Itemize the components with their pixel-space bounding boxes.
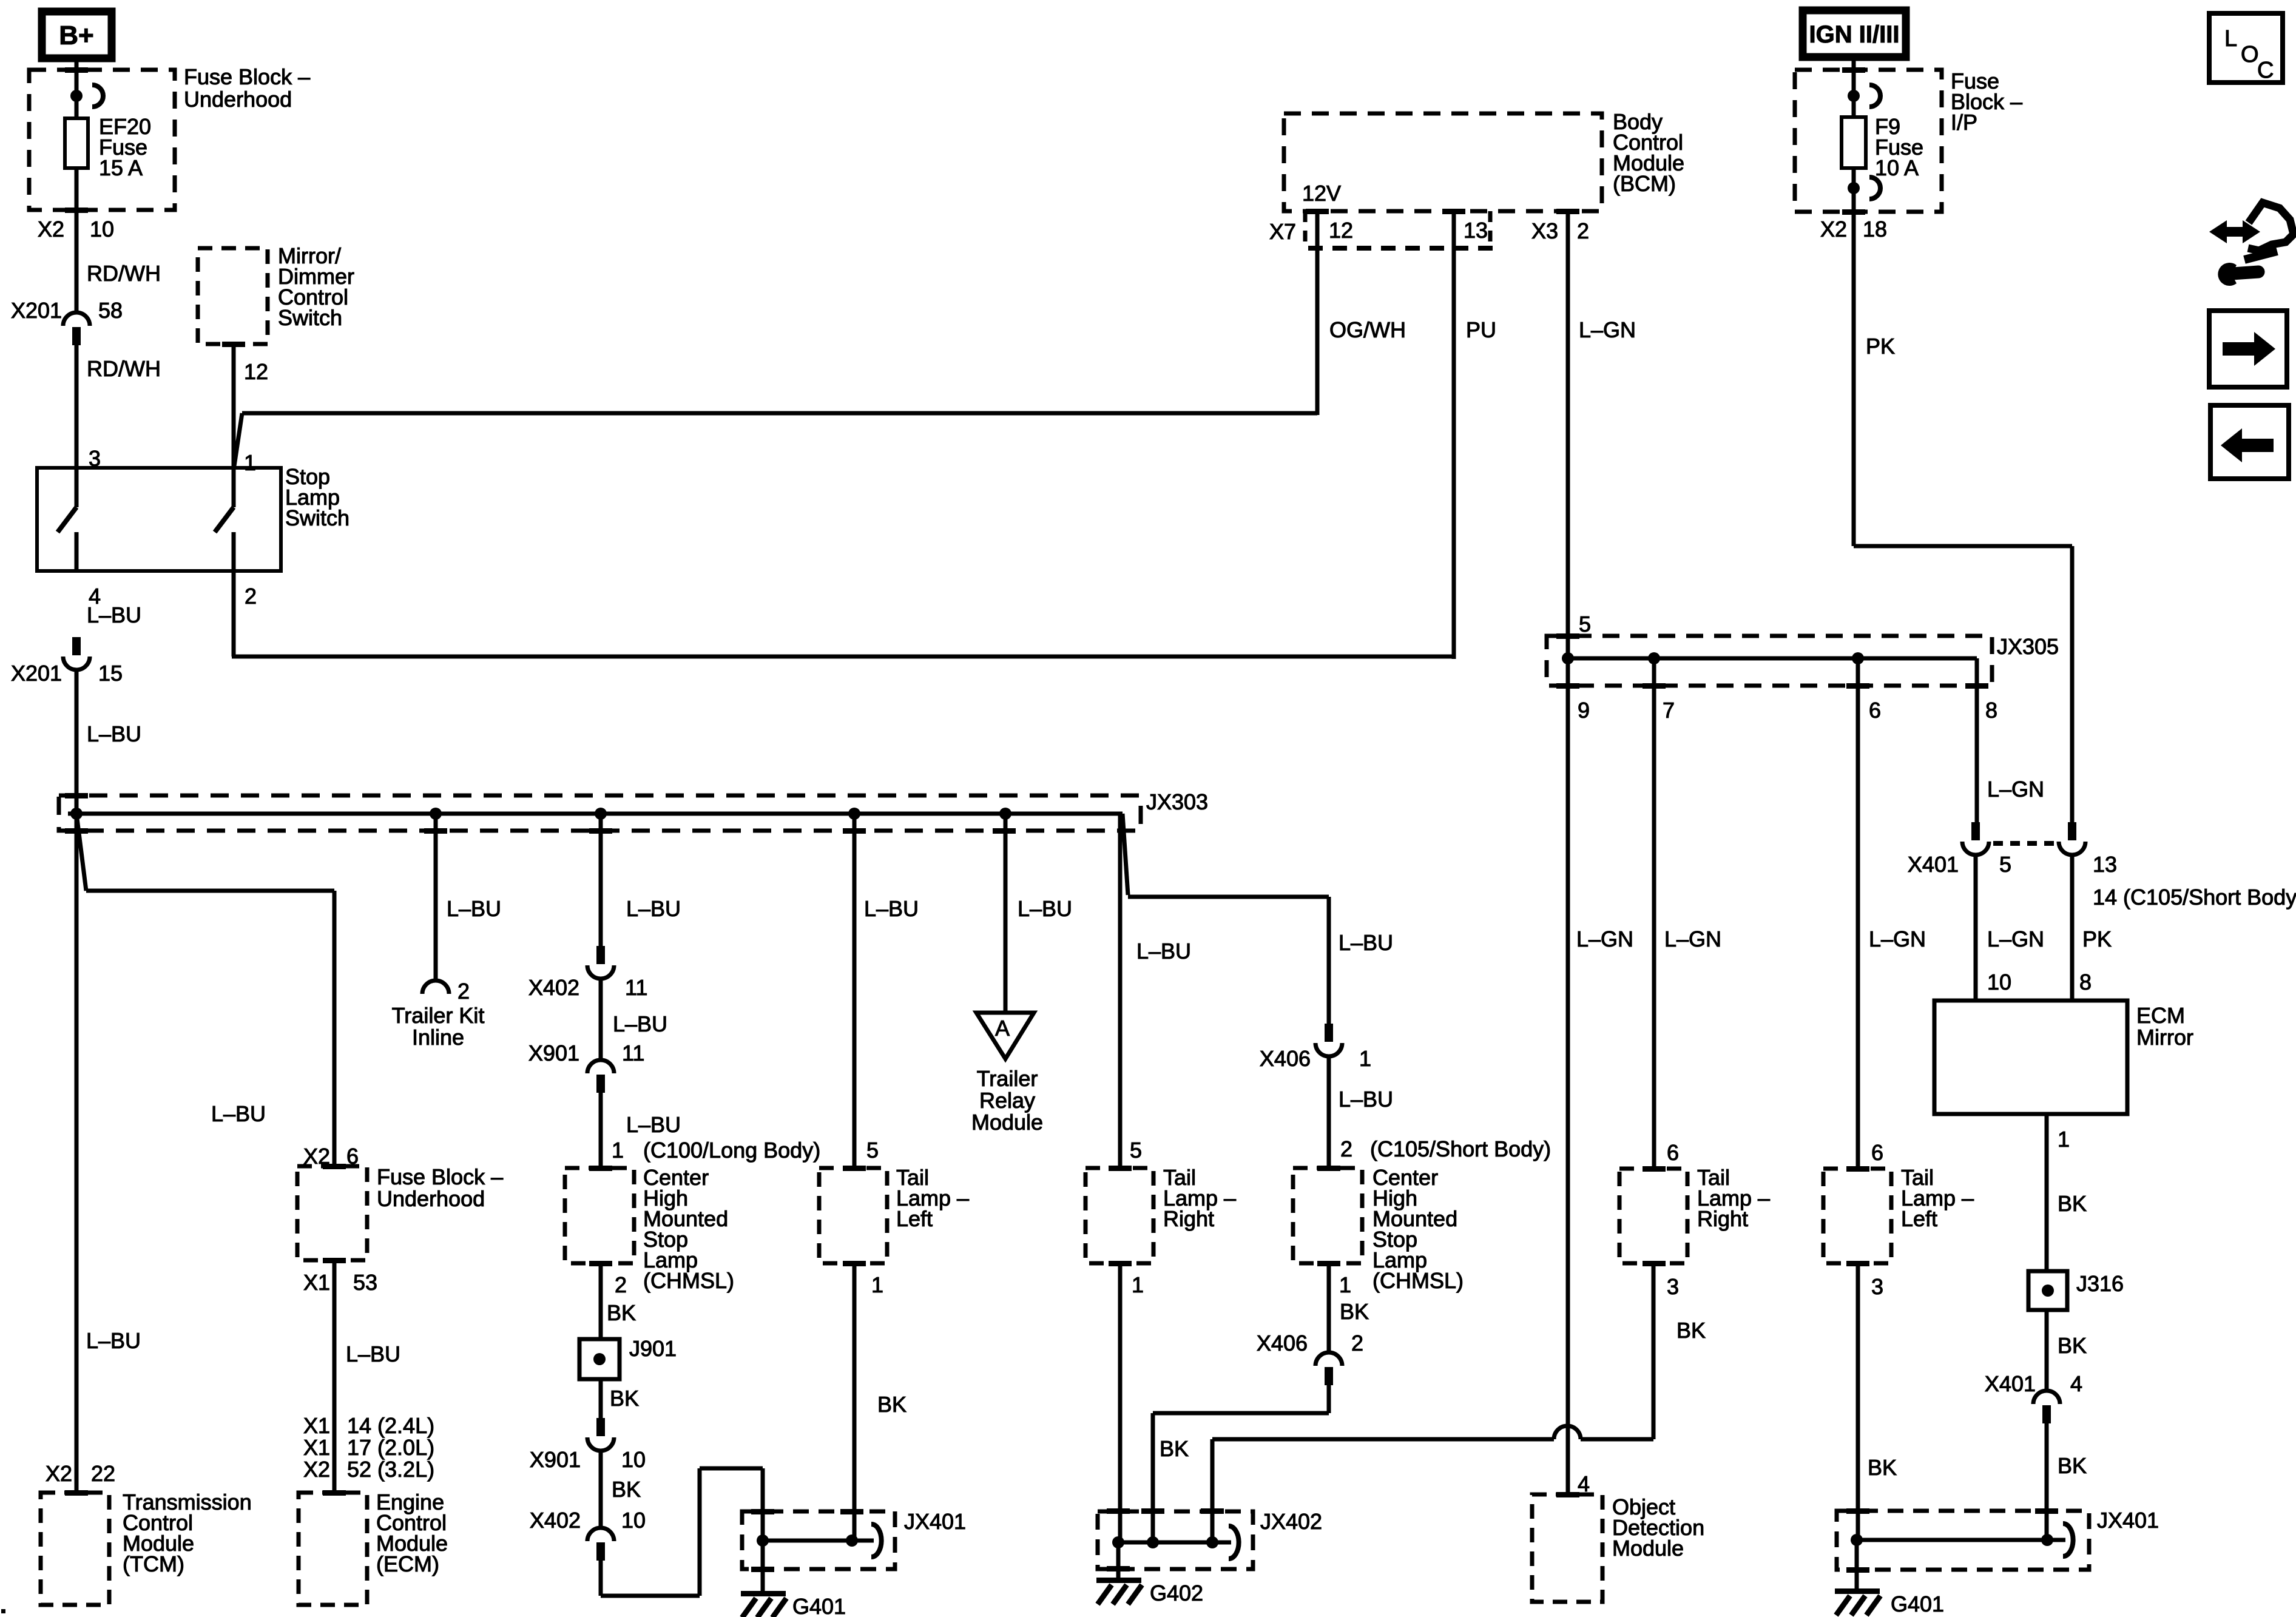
svg-text:X406: X406 — [1260, 1046, 1311, 1071]
svg-text:I/P: I/P — [1951, 110, 1977, 135]
svg-text:X2: X2 — [38, 217, 64, 241]
svg-text:(TCM): (TCM) — [123, 1551, 184, 1576]
label Tail Lamp - Right — [1163, 1165, 1236, 1231]
wire X901-10 to X402-10 — [599, 1452, 603, 1527]
label 12V — [1302, 181, 1341, 206]
wire X201-58 to stop lamp switch — [75, 345, 79, 468]
wire JX303 to TCM — [75, 814, 79, 1493]
junction dot EF20 top — [70, 90, 83, 102]
svg-text:BK: BK — [2058, 1333, 2087, 1358]
svg-text:5: 5 — [866, 1138, 879, 1163]
svg-text:X2: X2 — [1820, 217, 1847, 241]
svg-text:1: 1 — [2058, 1127, 2070, 1152]
svg-text:BK: BK — [1868, 1455, 1897, 1480]
wire JX305-6 to tail lamp left 2 — [1856, 658, 1860, 1169]
label 14 (C105/Short Body) — [2093, 885, 2296, 910]
svg-text:17 (2.0L): 17 (2.0L) — [347, 1435, 434, 1460]
svg-text:BK: BK — [610, 1386, 639, 1411]
fuse clip curl EF20 — [92, 85, 103, 107]
wire X402-11 to X901-11 — [599, 980, 603, 1059]
junction dot JX303 trailer kit — [430, 808, 442, 820]
svg-text:15 A: 15 A — [99, 155, 143, 180]
svg-text:L–BU: L–BU — [87, 721, 141, 746]
wire JX402 to ground G402 — [1116, 1542, 1121, 1580]
svg-text:PK: PK — [1866, 334, 1895, 359]
svg-text:Underhood: Underhood — [184, 87, 292, 112]
wire label BK — [612, 1477, 641, 1502]
svg-text:X901: X901 — [530, 1447, 581, 1472]
svg-text:O: O — [2241, 42, 2259, 67]
svg-text:BK: BK — [2058, 1453, 2087, 1478]
wire JX303 to tail lamp right — [1118, 814, 1123, 1168]
lamp Tail Lamp - Right 2 — [1619, 1169, 1687, 1263]
svg-text:X401: X401 — [1985, 1371, 2036, 1396]
svg-text:L–GN: L–GN — [1664, 927, 1721, 951]
label Engine Control Module (ECM) — [376, 1490, 448, 1576]
wire label BK — [1868, 1455, 1897, 1480]
pin label 12 — [244, 359, 268, 384]
fuse F9 — [1842, 117, 1866, 168]
svg-text:ECM: ECM — [2136, 1003, 2185, 1028]
connector box Mirror/Dimmer Control Switch — [198, 248, 268, 344]
connector box Fuse Block - Underhood 2 — [297, 1166, 367, 1260]
pin label 3 — [89, 446, 101, 471]
icon hand with wrench — [2209, 203, 2294, 286]
svg-text:BK: BK — [1676, 1318, 1706, 1343]
svg-text:X7: X7 — [1269, 219, 1296, 244]
svg-text:X1: X1 — [303, 1270, 330, 1295]
wire label L-GN — [1869, 927, 1926, 951]
power symbol B+ — [42, 12, 112, 58]
power symbol IGN II/III — [1803, 10, 1906, 57]
label JX402 — [1260, 1509, 1322, 1534]
svg-text:(C105/Short Body): (C105/Short Body) — [1370, 1136, 1551, 1161]
svg-text:X401: X401 — [1908, 852, 1959, 877]
inline connector X406 pin 2 — [1257, 1331, 1363, 1385]
wire tail lamp right pin1 to JX402 — [1118, 1263, 1123, 1542]
svg-text:BK: BK — [607, 1300, 636, 1325]
wire label BK — [877, 1392, 907, 1417]
fuse EF20 — [65, 118, 88, 168]
svg-text:RD/WH: RD/WH — [87, 356, 161, 381]
svg-text:X201: X201 — [11, 661, 62, 686]
pin label 1 — [1339, 1272, 1351, 1297]
wire label BK — [1676, 1318, 1706, 1343]
svg-text:L–GN: L–GN — [1576, 927, 1633, 951]
label F9 Fuse 10 A — [1875, 114, 1923, 180]
svg-text:Left: Left — [896, 1206, 933, 1231]
junction block JX401 — [742, 1511, 895, 1569]
wire label BK — [1160, 1436, 1189, 1461]
wire mirror/dimmer pin 12 to stop lamp switch pin 1 — [232, 344, 236, 468]
svg-text:10: 10 — [90, 217, 114, 241]
svg-text:L–BU: L–BU — [864, 896, 919, 921]
svg-text:12: 12 — [1329, 218, 1353, 243]
junction block JX401 right — [1837, 1511, 2089, 1570]
svg-text:(C100/Long Body): (C100/Long Body) — [643, 1138, 820, 1163]
label Transmission Control Module (TCM) — [123, 1490, 252, 1576]
svg-text:(CHMSL): (CHMSL) — [1373, 1268, 1464, 1293]
pin label 6 — [1871, 1140, 1883, 1165]
svg-text:PK: PK — [2082, 927, 2112, 951]
svg-text:L–BU: L–BU — [626, 1112, 681, 1137]
inline connector X401 pin 4 — [1985, 1371, 2082, 1423]
fuse clip curl F9 bottom — [1869, 177, 1880, 199]
pin labels 9 7 6 8 — [1578, 698, 1997, 723]
svg-text:X901: X901 — [528, 1041, 579, 1065]
pin label 1 — [1132, 1272, 1144, 1297]
splice J901 — [579, 1336, 677, 1379]
svg-text:8: 8 — [2079, 970, 2092, 994]
svg-text:B+: B+ — [59, 21, 93, 50]
label Tail Lamp - Right 2 — [1697, 1165, 1770, 1231]
label JX305 — [1997, 634, 2059, 659]
pin tick BCM pin 13 — [1442, 209, 1465, 214]
label Tail Lamp - Left — [896, 1165, 969, 1231]
svg-text:JX303: JX303 — [1146, 789, 1208, 814]
svg-text:2: 2 — [1351, 1331, 1363, 1355]
svg-text:BK: BK — [1340, 1299, 1369, 1324]
wire to ground G401 right — [1855, 1540, 1859, 1591]
wire label L-BU — [864, 896, 919, 921]
svg-text:1: 1 — [1339, 1272, 1351, 1297]
switch pole 1-2 contacts — [215, 468, 234, 571]
pin label 4 — [1578, 1471, 1590, 1496]
wire J316 to X401-4 — [2045, 1310, 2049, 1389]
pin label 2 — [245, 584, 257, 609]
svg-text:(CHMSL): (CHMSL) — [643, 1268, 734, 1293]
wire EF20 to X201 pin 58 — [75, 168, 79, 312]
svg-text:1: 1 — [244, 450, 256, 475]
svg-text:2: 2 — [458, 979, 470, 1004]
module Trailer Relay Module triangle — [976, 1013, 1034, 1059]
module Body Control Module (BCM) — [1284, 113, 1602, 211]
wire label L-GN — [1579, 317, 1636, 342]
svg-text:14 (2.4L): 14 (2.4L) — [347, 1413, 434, 1438]
svg-text:8: 8 — [1985, 698, 1997, 723]
pin label X2 22 — [46, 1461, 115, 1486]
svg-text:G401: G401 — [792, 1594, 846, 1617]
inline connector X901 pin 11 — [528, 1041, 644, 1093]
junction dot JX402 ground — [1112, 1536, 1124, 1548]
wire label L-BU — [211, 1101, 266, 1126]
module Engine Control Module (ECM) — [299, 1493, 367, 1605]
label Fuse Block - Underhood 2 — [377, 1164, 503, 1211]
fuse clip curl F9 top — [1869, 85, 1880, 107]
bus JX401 — [763, 1539, 874, 1543]
svg-text:X2: X2 — [46, 1461, 72, 1486]
pin label 1 — [871, 1272, 883, 1297]
svg-text:Fuse Block –: Fuse Block – — [184, 64, 310, 89]
switch Stop Lamp Switch box — [37, 468, 281, 571]
label ECM Mirror — [2136, 1003, 2193, 1050]
label Fuse Block - Underhood — [184, 64, 310, 112]
wire JX303 to fuse block underhood (ECM feed) — [76, 814, 334, 1166]
svg-text:13: 13 — [2093, 852, 2117, 877]
junction dot JX401R ECM — [2041, 1534, 2053, 1546]
junction dot JX303 CHMSL — [595, 808, 607, 820]
wire F9 to X401 pin 13 (PK) — [1854, 168, 2072, 823]
wire JX305-7 to tail lamp right 2 — [1652, 658, 1656, 1169]
svg-text:13: 13 — [1464, 218, 1488, 243]
pin label X1 53 — [303, 1270, 377, 1295]
junction dot JX402 BK — [1206, 1536, 1218, 1548]
svg-text:L–GN: L–GN — [1869, 927, 1926, 951]
svg-text:Mirror: Mirror — [2136, 1025, 2193, 1050]
svg-text:10: 10 — [1987, 970, 2011, 994]
svg-text:L–BU: L–BU — [1339, 930, 1393, 955]
label Body Control Module (BCM) — [1613, 109, 1684, 196]
wire OG/WH stop lamp pin1 to BCM X7-12 — [234, 211, 1317, 466]
stray dot — [1, 1609, 5, 1613]
pin label X2 10 — [38, 217, 114, 241]
svg-text:RD/WH: RD/WH — [87, 261, 161, 286]
junction dot JX401R ground — [1851, 1534, 1863, 1546]
ground G401 — [741, 1591, 786, 1617]
label JX401 right — [2097, 1508, 2159, 1533]
svg-text:L–BU: L–BU — [211, 1101, 266, 1126]
bus JX303 — [68, 812, 1123, 816]
svg-text:X1: X1 — [303, 1413, 330, 1438]
wire label PU — [1466, 317, 1496, 342]
wire label L-BU — [86, 1328, 141, 1353]
ground G401 right — [1835, 1588, 1880, 1615]
wire CHMSL short pin1 to X406-2 — [1327, 1263, 1331, 1352]
svg-text:Relay: Relay — [979, 1088, 1035, 1113]
bus JX401 right — [1857, 1538, 2065, 1542]
terminal hook JX401 right — [2063, 1524, 2073, 1556]
wire label L-BU — [1018, 896, 1072, 921]
label JX303 — [1146, 789, 1208, 814]
svg-text:2: 2 — [1340, 1136, 1352, 1161]
lamp Center High Mounted Stop Lamp (CHMSL) long body — [565, 1168, 634, 1263]
label G401 — [792, 1594, 846, 1617]
svg-text:X201: X201 — [11, 298, 62, 323]
wire BK tail lamp right 2 to JX402 — [1212, 1263, 1653, 1542]
svg-text:5: 5 — [1579, 612, 1591, 636]
svg-text:3: 3 — [1871, 1274, 1883, 1299]
wire label L-BU — [1339, 1087, 1393, 1112]
label Trailer Kit Inline — [392, 1003, 485, 1050]
svg-text:7: 7 — [1663, 698, 1675, 723]
pin tick BCM pin 2 — [1556, 209, 1579, 214]
svg-text:2: 2 — [615, 1272, 627, 1297]
svg-text:12: 12 — [244, 359, 268, 384]
svg-text:G402: G402 — [1150, 1581, 1203, 1605]
svg-text:Right: Right — [1697, 1206, 1748, 1231]
wire label BK — [607, 1300, 636, 1325]
wire label L-GN — [1664, 927, 1721, 951]
svg-text:10: 10 — [621, 1447, 646, 1472]
svg-text:X1: X1 — [303, 1435, 330, 1460]
svg-text:L–BU: L–BU — [613, 1011, 667, 1036]
junction dot F9 bottom — [1848, 182, 1860, 194]
wire label BK — [2058, 1191, 2087, 1216]
module ECM Mirror — [1934, 1001, 2127, 1114]
label G401 right — [1891, 1592, 1944, 1616]
wire label BK — [2058, 1453, 2087, 1478]
svg-text:Underhood: Underhood — [377, 1186, 485, 1211]
svg-text:JX401: JX401 — [904, 1509, 966, 1534]
svg-text:Module: Module — [971, 1110, 1043, 1135]
junction dot JX305-9 — [1562, 652, 1574, 664]
svg-text:5: 5 — [1999, 852, 2011, 877]
wire label PK — [1866, 334, 1895, 359]
svg-text:18: 18 — [1863, 217, 1887, 241]
junction block JX303 — [59, 795, 1141, 831]
svg-text:15: 15 — [98, 661, 123, 686]
wire X401-5 to ECM mirror pin 10 — [1974, 856, 1978, 1001]
svg-text:PU: PU — [1466, 317, 1496, 342]
svg-text:6: 6 — [1871, 1140, 1883, 1165]
junction dot JX401 ground — [757, 1534, 769, 1547]
wire JX303 to trailer relay module — [1004, 814, 1008, 1014]
pin label 1 (C100/Long Body) — [612, 1138, 820, 1163]
svg-text:3: 3 — [1667, 1274, 1679, 1299]
junction dot JX303 tail left — [848, 808, 860, 820]
wire ECM pin1 to J316 — [2045, 1114, 2049, 1271]
label CHMSL long body — [643, 1165, 734, 1293]
connector box Fuse Block - Underhood (EF20) — [29, 70, 175, 210]
wire X401-4 to JX401 — [2045, 1423, 2049, 1540]
wire B+ to fuse block — [75, 58, 79, 119]
wire PU stop lamp pin2 to BCM X7-13 — [232, 211, 1454, 659]
svg-text:OG/WH: OG/WH — [1329, 317, 1406, 342]
svg-text:52 (3.2L): 52 (3.2L) — [347, 1457, 434, 1482]
svg-text:X402: X402 — [530, 1508, 581, 1533]
label JX401 — [904, 1509, 966, 1534]
svg-text:(ECM): (ECM) — [376, 1551, 439, 1576]
terminal hook JX401 — [871, 1524, 882, 1557]
pin label 3 — [1667, 1274, 1679, 1299]
svg-text:Right: Right — [1163, 1206, 1214, 1231]
label G402 — [1150, 1581, 1203, 1605]
svg-text:L: L — [2224, 26, 2237, 52]
label CHMSL short body — [1373, 1165, 1464, 1293]
module Transmission Control Module (TCM) — [41, 1493, 109, 1605]
wire JX303 to tail lamp left — [853, 814, 857, 1168]
wire IGN to fuse F9 — [1852, 57, 1856, 119]
svg-text:J316: J316 — [2076, 1271, 2124, 1296]
svg-text:L–BU: L–BU — [1339, 1087, 1393, 1112]
pin labels X1 14 X1 17 X2 52 — [303, 1413, 434, 1482]
wire label RD/WH — [87, 261, 161, 286]
wire label L-BU — [346, 1342, 400, 1366]
switch pole 3-4 contacts — [58, 468, 76, 571]
svg-text:A: A — [995, 1016, 1010, 1041]
bus JX402 — [1118, 1541, 1231, 1545]
svg-text:11: 11 — [625, 975, 647, 1000]
svg-text:BK: BK — [612, 1477, 641, 1502]
wire X406-1 to CHMSL short — [1327, 1058, 1331, 1168]
svg-text:(BCM): (BCM) — [1613, 171, 1676, 196]
svg-text:C: C — [2257, 58, 2274, 83]
svg-text:L–BU: L–BU — [346, 1342, 400, 1366]
icon arrow right box — [2209, 311, 2287, 387]
inline connector X201 pin 58 — [11, 298, 123, 345]
svg-text:G401: G401 — [1891, 1592, 1944, 1616]
wire J901 to X901-10 — [599, 1379, 603, 1418]
wire label BK — [610, 1386, 639, 1411]
label EF20 Fuse 15 A — [99, 114, 151, 180]
svg-text:58: 58 — [98, 298, 123, 323]
pin labels 10 8 — [1987, 970, 2092, 994]
lamp Tail Lamp - Left 2 — [1823, 1169, 1891, 1263]
svg-text:6: 6 — [1667, 1140, 1679, 1165]
svg-text:2: 2 — [245, 584, 257, 609]
inline connector X401 pin 13 — [2059, 822, 2085, 855]
wire label L-BU — [626, 1112, 681, 1137]
svg-text:12V: 12V — [1302, 181, 1341, 206]
svg-text:Trailer Kit: Trailer Kit — [392, 1003, 485, 1028]
svg-text:1: 1 — [871, 1272, 883, 1297]
inline connector X402 pin 11 — [528, 946, 647, 1000]
wire label L-GN — [1576, 927, 1633, 951]
pin label 5 — [866, 1138, 879, 1163]
wire label L-BU — [87, 603, 141, 627]
svg-text:J901: J901 — [629, 1336, 677, 1361]
label Mirror/Dimmer Control Switch — [278, 243, 354, 330]
svg-text:53: 53 — [353, 1270, 377, 1295]
connector box Fuse Block - I/P — [1795, 70, 1942, 212]
wire label L-BU — [87, 721, 141, 746]
svg-text:Switch: Switch — [278, 305, 342, 330]
junction dot JX305-6 — [1852, 652, 1864, 664]
wire tail lamp left pin1 to JX401 — [853, 1263, 857, 1541]
pin label 1 — [2058, 1127, 2070, 1152]
wire label L-BU — [1136, 939, 1191, 964]
svg-text:L–GN: L–GN — [1987, 777, 2044, 802]
lamp Tail Lamp - Left — [819, 1168, 887, 1263]
svg-text:BK: BK — [877, 1392, 907, 1417]
inline connector X401 pin 5 — [1962, 822, 1989, 855]
svg-text:L–BU: L–BU — [1136, 939, 1191, 964]
svg-text:5: 5 — [1130, 1138, 1142, 1163]
svg-text:L–BU: L–BU — [86, 1328, 141, 1353]
svg-text:L–GN: L–GN — [1987, 927, 2044, 951]
wire label BK — [2058, 1333, 2087, 1358]
label Tail Lamp - Left 2 — [1901, 1165, 1974, 1231]
wire label OG/WH — [1329, 317, 1406, 342]
svg-text:9: 9 — [1578, 698, 1590, 723]
connector strip X7 on BCM — [1305, 211, 1494, 248]
labels X401 5 13 — [1908, 852, 2117, 877]
pin label 5 — [1130, 1138, 1142, 1163]
svg-text:L–BU: L–BU — [447, 896, 501, 921]
svg-text:X402: X402 — [528, 975, 579, 1000]
svg-text:X2: X2 — [303, 1457, 330, 1482]
pin label 3 — [1871, 1274, 1883, 1299]
pin label 4 — [89, 584, 101, 609]
pin labels X7 12 13 X3 2 — [1269, 218, 1589, 244]
wire X201-15 to junction JX303 — [75, 671, 79, 814]
wire fuse block to ECM — [333, 1260, 337, 1493]
wire label L-BU — [1339, 930, 1393, 955]
connector Trailer Kit Inline — [422, 979, 470, 1004]
svg-text:L–GN: L–GN — [1579, 317, 1636, 342]
svg-text:L–BU: L–BU — [626, 896, 681, 921]
connector link dashes X401 — [1993, 841, 2056, 846]
wire tail lamp left 2 pin3 to JX401 right — [1856, 1263, 1860, 1540]
pin label 1 — [244, 450, 256, 475]
label Stop Lamp Switch — [285, 464, 349, 530]
wire JX303 to trailer kit inline — [434, 814, 438, 981]
svg-text:4: 4 — [2070, 1371, 2082, 1396]
wire labels L-GN PK — [1987, 927, 2112, 951]
svg-text:IGN II/III: IGN II/III — [1809, 21, 1900, 48]
wire X401-13 to ECM mirror pin 8 — [2070, 856, 2075, 1001]
svg-text:Left: Left — [1901, 1206, 1937, 1231]
